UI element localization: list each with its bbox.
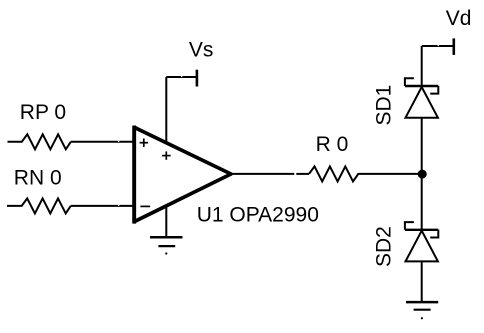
wire SD2 anode to ground (421, 261, 423, 302)
svg-text:R 0: R 0 (316, 133, 349, 156)
node A junction (418, 170, 427, 179)
svg-text:RP 0: RP 0 (20, 101, 66, 124)
svg-text:Vd: Vd (446, 7, 472, 30)
op-amp V+ supply marker (162, 151, 171, 159)
svg-text:SD1: SD1 (373, 85, 396, 126)
wire node A to SD2 cathode (421, 174, 423, 230)
svg-text:RN 0: RN 0 (14, 167, 62, 190)
wire RP to U1 +input (71, 141, 134, 142)
ground (op-amp) (150, 237, 183, 254)
op-amp - input marker (140, 205, 150, 207)
wire U1 output (231, 173, 310, 175)
wire SD1 anode to node A (421, 118, 423, 174)
svg-text:Vs: Vs (189, 38, 214, 61)
resistor R (309, 166, 360, 181)
svg-text:U1 OPA2990: U1 OPA2990 (197, 204, 319, 227)
op-amp + input marker (140, 139, 149, 147)
power terminal Vs (196, 70, 199, 87)
svg-text:SD2: SD2 (373, 226, 396, 267)
resistor RN (7, 198, 71, 213)
wire Vd horizontal (422, 45, 454, 46)
op-amp U1 triangle (134, 126, 231, 224)
diode SD2 (Schottky) (405, 222, 438, 261)
wire R to node A (360, 173, 422, 175)
wire U1 to ground (165, 205, 167, 238)
diode SD1 (Schottky) (405, 78, 438, 117)
ground (SD2) (406, 302, 438, 319)
wire RN to U1 -input (71, 205, 134, 206)
wire Vs vertical (165, 77, 167, 143)
wire Vd to SD1 cathode (421, 46, 423, 86)
resistor RP (8, 134, 71, 149)
power terminal Vd (452, 38, 455, 55)
wire Vs horizontal (166, 76, 197, 77)
